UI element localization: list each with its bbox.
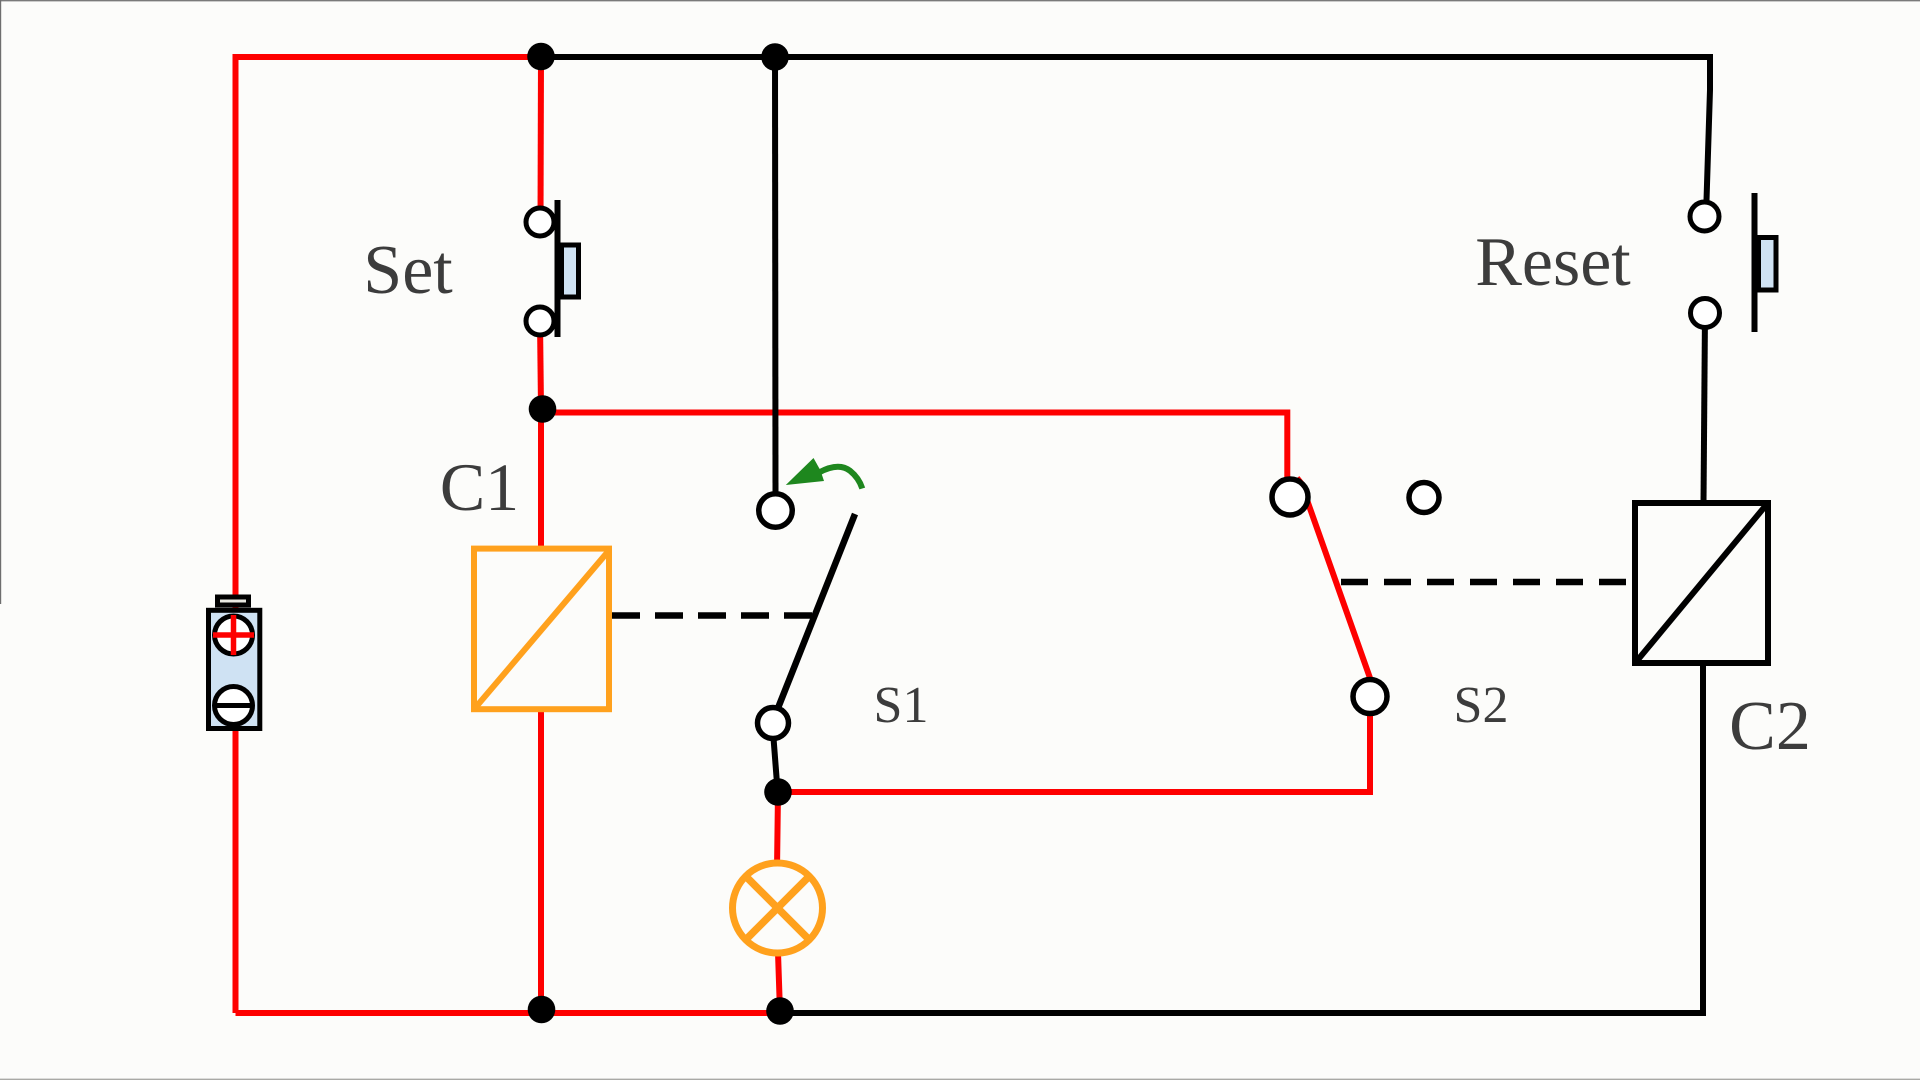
svg-text:Set: Set bbox=[363, 232, 453, 309]
svg-text:C1: C1 bbox=[440, 449, 519, 525]
svg-text:C2: C2 bbox=[1729, 688, 1811, 765]
svg-text:S1: S1 bbox=[874, 677, 929, 734]
svg-text:S2: S2 bbox=[1454, 677, 1509, 734]
svg-text:Reset: Reset bbox=[1475, 224, 1631, 301]
